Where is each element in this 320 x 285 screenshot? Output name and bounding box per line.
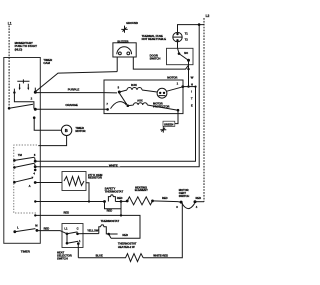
switch push-to-start contacts [14, 88, 35, 93]
heat selector contacts [66, 233, 69, 236]
wire element to cent switch [153, 201, 182, 202]
svg-text:RED: RED [122, 233, 128, 237]
svg-text:T2: T2 [185, 38, 189, 42]
svg-text:NO: NO [184, 51, 188, 55]
wire B white timer to fuse [35, 25, 199, 167]
buzzer symbol [117, 47, 132, 54]
wire safety lower loop [105, 202, 122, 209]
node L contact top [8, 107, 11, 110]
wire L1 dashed supply line [8, 26, 10, 109]
node red junction [120, 200, 123, 203]
wire heat selector arms [67, 232, 78, 243]
heater element wire left [121, 200, 127, 202]
wire timer motor bottom return [38, 136, 66, 146]
svg-text:ORANGE: ORANGE [65, 103, 78, 107]
switch push-to-start prongs [20, 84, 29, 89]
wire resistor to red node [86, 183, 89, 202]
svg-text:C: C [77, 226, 79, 230]
svg-text:SWITCH: SWITCH [150, 56, 161, 60]
wire resistor feed [35, 182, 62, 184]
motor centrifugal arc [111, 102, 127, 109]
svg-text:MOTOR: MOTOR [167, 76, 177, 80]
svg-text:TIMER: TIMER [21, 249, 31, 253]
svg-text:THERMOSTAT: THERMOSTAT [105, 190, 124, 194]
svg-text:ELEMENT: ELEMENT [135, 188, 148, 192]
svg-text:RED: RED [64, 211, 70, 215]
wire fuse top to L2 [178, 25, 205, 33]
wire timer to safety thermostat [35, 201, 104, 203]
buzzer box [113, 43, 136, 57]
svg-text:RUN: RUN [131, 83, 137, 87]
thermostat heater zigzag [78, 254, 143, 262]
wire start-switch jog [14, 93, 34, 109]
wire timer to heat selector [37, 231, 67, 234]
wire buzzer left leg [116, 57, 118, 72]
wire green ground [164, 110, 179, 127]
svg-text:B: B [65, 128, 68, 133]
svg-text:RED: RED [44, 226, 50, 230]
motor centrifugal arm [119, 92, 128, 105]
node motor X [127, 104, 130, 107]
svg-text:(NLD): (NLD) [15, 47, 23, 51]
thermostat safety symbol [103, 200, 106, 203]
svg-text:HEATER-2 W: HEATER-2 W [118, 245, 135, 249]
timer motor B [61, 125, 71, 135]
cam group dashed outline [14, 145, 37, 213]
node cam contact dots right [34, 160, 37, 163]
wire buzzer right leg [133, 57, 188, 69]
motor cent switch [180, 201, 183, 204]
svg-text:SWITCH: SWITCH [57, 257, 68, 261]
svg-text:BUZZER: BUZZER [117, 40, 128, 44]
wire cam arm 1 [14, 157, 35, 161]
svg-text:E: E [191, 104, 193, 108]
resistor 277k box [62, 172, 86, 191]
node motor 5 [118, 91, 121, 94]
wire timer arm L-M [9, 104, 33, 108]
motor box [104, 80, 183, 114]
wire start diagonal to buzzer [35, 72, 117, 92]
svg-text:THERMOSTAT: THERMOSTAT [101, 219, 120, 223]
node motor T [106, 108, 109, 111]
wire cam arm 2 [14, 163, 35, 167]
svg-text:W: W [191, 76, 194, 80]
svg-text:T1: T1 [185, 31, 189, 35]
svg-text:AUX: AUX [137, 98, 143, 102]
wire fuse to door switch [177, 42, 179, 49]
svg-text:RED: RED [162, 196, 168, 200]
wire cam arm 3 [14, 178, 32, 182]
white vertical label [191, 76, 194, 108]
svg-text:CAM: CAM [43, 61, 50, 65]
node cam contact dots left [13, 159, 16, 162]
svg-text:WHITE-RED: WHITE-RED [153, 254, 168, 258]
svg-text:A: A [29, 184, 31, 188]
wire heat selector to blue [77, 244, 79, 258]
door switch box [167, 48, 194, 64]
green label box [163, 121, 175, 126]
svg-text:WHITE: WHITE [109, 163, 118, 167]
svg-text:H: H [191, 83, 193, 87]
svg-text:PURPLE: PURPLE [68, 88, 80, 92]
wire L2 dashed supply line [203, 18, 205, 202]
resistor 277k zigzag [64, 177, 84, 186]
switch push-to-start plunger [17, 79, 29, 83]
svg-text:SWITCH: SWITCH [179, 194, 189, 198]
timer box [4, 58, 41, 244]
wire yellow to thermostat [78, 233, 99, 235]
svg-text:RED: RED [107, 209, 113, 213]
door switch contacts [178, 52, 181, 55]
svg-text:RED: RED [117, 196, 123, 200]
white label [109, 162, 121, 167]
wire junction drop [120, 201, 122, 215]
thermostat operating symbol [99, 225, 118, 238]
wire white-red return [143, 203, 182, 258]
svg-text:T: T [191, 97, 193, 101]
wire door switch NO drop [188, 60, 190, 86]
svg-text:L2: L2 [206, 14, 210, 18]
svg-text:GREEN: GREEN [164, 122, 173, 126]
wire red timer to thermostat [35, 215, 140, 238]
svg-text:L1: L1 [8, 21, 12, 25]
node M contact top [34, 108, 37, 111]
wire cent switch to L2 [195, 201, 204, 203]
ground symbol motor [160, 127, 166, 132]
svg-text:NOT RESETTABLE: NOT RESETTABLE [142, 37, 167, 41]
heat selector switch box [62, 224, 83, 248]
wire timer motor left [34, 118, 61, 131]
svg-text:YELLOW: YELLOW [87, 229, 99, 233]
svg-text:MOTOR: MOTOR [75, 129, 85, 133]
node motor 6 green [177, 109, 180, 112]
svg-text:BLUE: BLUE [96, 253, 103, 257]
ground symbol top [121, 26, 127, 33]
wire timer bottom arm [15, 229, 36, 232]
svg-text:GROUND: GROUND [126, 21, 138, 25]
svg-text:L1: L1 [64, 226, 68, 230]
wire purple to motor [35, 92, 117, 94]
motor protector [157, 88, 167, 98]
thermal fuse [173, 32, 182, 41]
wire orange to motor [35, 108, 106, 110]
wire motor terminal 1 stub [183, 86, 196, 88]
wire A timer to motor feed [35, 87, 195, 162]
heating element [126, 200, 129, 203]
svg-text:RESISTOR: RESISTOR [88, 176, 102, 180]
svg-text:RED: RED [196, 196, 202, 200]
timer bottom contacts L M [13, 230, 16, 233]
